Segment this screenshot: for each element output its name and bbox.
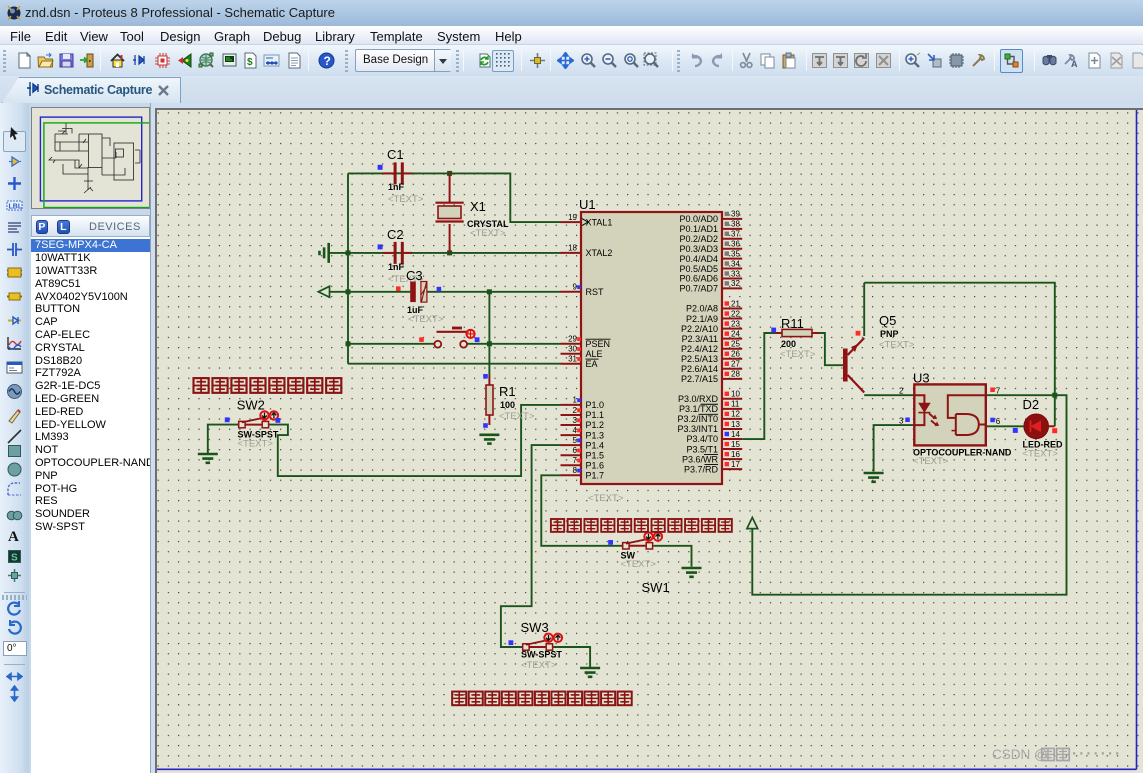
wire U3 pin6 to D2 xyxy=(987,425,1025,427)
svg-text:P2.4/A12: P2.4/A12 xyxy=(681,344,718,354)
annotation 按键模拟光线强弱 xyxy=(194,378,342,393)
svg-text:SW3: SW3 xyxy=(521,620,549,635)
svg-text:<TEXT>: <TEXT> xyxy=(470,228,506,239)
node RST-R1 xyxy=(487,289,492,294)
svg-text:<TEXT>: <TEXT> xyxy=(408,314,444,325)
svg-text:<TEXT>: <TEXT> xyxy=(388,194,424,205)
svg-text:ALE: ALE xyxy=(586,349,603,359)
svg-text:<TEXT>: <TEXT> xyxy=(913,456,949,467)
svg-text:21: 21 xyxy=(731,299,740,308)
capacitor C2 xyxy=(378,227,424,285)
svg-text:SW1: SW1 xyxy=(642,580,670,595)
svg-text:33: 33 xyxy=(731,269,740,278)
svg-text:PSEN: PSEN xyxy=(586,339,611,349)
node RST rail xyxy=(346,289,351,294)
svg-text:18: 18 xyxy=(568,244,577,253)
svg-text:32: 32 xyxy=(731,279,740,288)
node BTN rail xyxy=(346,341,351,346)
terminal arrow RST left xyxy=(318,286,329,297)
svg-text:SW-SPST: SW-SPST xyxy=(521,650,562,660)
svg-text:P1.5: P1.5 xyxy=(586,450,605,460)
wire SW1 right to gnd xyxy=(653,546,691,567)
switch SW2 xyxy=(238,411,279,428)
svg-text:29: 29 xyxy=(568,335,577,344)
svg-text:RST: RST xyxy=(586,287,605,297)
svg-text:8: 8 xyxy=(573,466,578,475)
transistor Q5 PNP xyxy=(843,313,915,393)
svg-text:?: ? xyxy=(324,54,331,68)
crystal X1 xyxy=(436,173,510,253)
svg-text:6: 6 xyxy=(573,446,578,455)
ground R1 xyxy=(479,435,499,444)
svg-text:CSDN @: CSDN @ xyxy=(992,747,1048,762)
wire C1 top rail xyxy=(348,173,561,222)
wire EA line xyxy=(348,363,561,365)
terminal arrow up (loop) xyxy=(747,518,758,529)
svg-text:P3.7/RD: P3.7/RD xyxy=(684,464,719,474)
capacitor C3 electrolytic xyxy=(396,268,444,325)
ground C2 (left-facing) xyxy=(320,243,329,263)
svg-text:<TEXT>: <TEXT> xyxy=(621,559,657,570)
svg-text:<TEXT>: <TEXT> xyxy=(780,349,816,360)
svg-text:XTAL1: XTAL1 xyxy=(586,217,613,227)
svg-text:P3.2/INT0: P3.2/INT0 xyxy=(677,414,718,424)
wire gnd to XTAL2 xyxy=(330,252,561,254)
wire P3.4 to R11 xyxy=(742,333,776,439)
svg-text:P2.3/A11: P2.3/A11 xyxy=(682,334,718,344)
svg-text:200: 200 xyxy=(781,339,796,349)
svg-text:$: $ xyxy=(247,57,253,68)
svg-text:7: 7 xyxy=(573,456,578,465)
wire R11 to Q5 base xyxy=(818,333,843,365)
svg-text:<TEXT>: <TEXT> xyxy=(1023,449,1059,460)
svg-text:LBL: LBL xyxy=(9,204,23,211)
svg-text:P0.5/AD5: P0.5/AD5 xyxy=(679,264,718,274)
svg-text:12: 12 xyxy=(731,410,740,419)
svg-text:P2.6/A14: P2.6/A14 xyxy=(681,364,718,374)
svg-text:30: 30 xyxy=(568,345,577,354)
svg-text:100: 100 xyxy=(500,400,515,410)
op U3 OPTOCOUPLER-NAND xyxy=(899,371,1012,468)
wire U3 pin3 to gnd xyxy=(874,425,915,471)
wire button line to PSEN xyxy=(348,343,435,345)
node BTN-PSEN xyxy=(487,341,492,346)
wire P1.0 to SW2 xyxy=(269,405,560,476)
wire P1.7 to SW1 xyxy=(541,475,622,546)
svg-text:38: 38 xyxy=(731,220,740,229)
svg-text:7: 7 xyxy=(996,387,1001,396)
svg-text:3: 3 xyxy=(899,417,904,426)
svg-text:14: 14 xyxy=(731,430,740,439)
svg-text:6: 6 xyxy=(996,417,1001,426)
ground SW1 xyxy=(682,568,702,577)
wire U3 pin7 to junction xyxy=(752,395,1066,595)
svg-text:P2.0/A8: P2.0/A8 xyxy=(686,304,718,314)
svg-text:·······: ······· xyxy=(1072,746,1122,763)
svg-text:P1.6: P1.6 xyxy=(586,460,605,470)
svg-text:P0.1/AD1: P0.1/AD1 xyxy=(679,224,718,234)
svg-text:1nF: 1nF xyxy=(388,182,405,192)
svg-text:P0.7/AD7: P0.7/AD7 xyxy=(679,284,718,294)
svg-text:<TEXT>: <TEXT> xyxy=(588,493,624,504)
node X1-top xyxy=(447,171,452,176)
svg-text:X1: X1 xyxy=(470,199,486,214)
svg-text:35: 35 xyxy=(731,249,740,258)
svg-text:16: 16 xyxy=(731,450,740,459)
annotation 用按键代替人体感应模块 xyxy=(551,519,732,532)
svg-text:XTAL2: XTAL2 xyxy=(586,248,613,258)
svg-text:24: 24 xyxy=(731,329,740,338)
svg-text:C2: C2 xyxy=(387,227,404,242)
svg-text:D2: D2 xyxy=(1023,397,1040,412)
svg-text:P3.4/T0: P3.4/T0 xyxy=(686,434,718,444)
svg-text:2: 2 xyxy=(899,387,904,396)
switch SW3 xyxy=(522,634,563,651)
svg-text:22: 22 xyxy=(731,309,740,318)
svg-text:P2.5/A13: P2.5/A13 xyxy=(681,354,718,364)
op U1 AT89C51 body xyxy=(561,197,743,504)
svg-text:S: S xyxy=(11,553,18,564)
svg-text:P3.3/INT1: P3.3/INT1 xyxy=(677,424,718,434)
svg-text:36: 36 xyxy=(731,239,740,248)
svg-text:P1.1: P1.1 xyxy=(586,410,605,420)
svg-text:P0.2/AD2: P0.2/AD2 xyxy=(679,234,718,244)
svg-text:27: 27 xyxy=(731,360,740,369)
svg-text:C3: C3 xyxy=(406,268,423,283)
wire top rail xyxy=(864,283,1055,427)
svg-text:R1: R1 xyxy=(499,384,516,399)
svg-text:P2.2/A10: P2.2/A10 xyxy=(681,324,718,334)
svg-text:C1: C1 xyxy=(387,147,404,162)
svg-text:P0.0/AD0: P0.0/AD0 xyxy=(679,214,718,224)
wire SW2 left to gnd xyxy=(208,425,239,454)
svg-text:EA: EA xyxy=(586,359,598,369)
svg-text:A: A xyxy=(8,529,19,544)
svg-text:P1.2: P1.2 xyxy=(586,420,605,430)
svg-text:P2.1/A9: P2.1/A9 xyxy=(686,314,718,324)
wire Q5 collector to U3 pin2 xyxy=(864,394,914,396)
svg-text:P1.4: P1.4 xyxy=(586,440,605,450)
svg-text:U1: U1 xyxy=(579,197,596,212)
svg-text:P3.5/T1: P3.5/T1 xyxy=(686,444,718,454)
svg-text:U3: U3 xyxy=(913,371,930,386)
svg-text:P2.7/A15: P2.7/A15 xyxy=(681,374,718,384)
svg-text:1: 1 xyxy=(573,396,578,405)
svg-text:<TEXT>: <TEXT> xyxy=(499,411,535,422)
switch SW1 xyxy=(622,532,663,549)
svg-text:P3.1/TXD: P3.1/TXD xyxy=(679,404,719,414)
svg-text:9: 9 xyxy=(573,283,578,292)
wire Q5 emitter to top rail xyxy=(863,283,865,336)
svg-text:2: 2 xyxy=(573,406,578,415)
LED D2 xyxy=(1013,397,1063,460)
wire left rail xyxy=(347,173,349,363)
svg-text:P0.6/AD6: P0.6/AD6 xyxy=(679,274,718,284)
node GND-C2 rail xyxy=(346,250,351,255)
svg-text:13: 13 xyxy=(731,420,740,429)
svg-text:3: 3 xyxy=(573,416,578,425)
wire RST line xyxy=(330,291,412,293)
annotation 用按键代替声音检测模块 xyxy=(452,692,632,706)
svg-text:28: 28 xyxy=(731,370,740,379)
svg-text:P1.0: P1.0 xyxy=(586,400,605,410)
svg-text:17: 17 xyxy=(731,460,740,469)
svg-text:Q5: Q5 xyxy=(879,313,896,328)
capacitor C1 xyxy=(378,147,424,205)
ground SW3 xyxy=(580,668,600,677)
svg-text:4: 4 xyxy=(573,426,578,435)
svg-text:P0.4/AD4: P0.4/AD4 xyxy=(679,254,718,264)
svg-text:31: 31 xyxy=(568,355,577,364)
svg-text:39: 39 xyxy=(731,210,740,219)
svg-text:A: A xyxy=(1071,59,1078,69)
svg-text:26: 26 xyxy=(731,350,740,359)
svg-text:34: 34 xyxy=(731,259,740,268)
wire SW3 right to gnd xyxy=(553,647,590,668)
resistor R1 xyxy=(483,374,535,428)
svg-text:37: 37 xyxy=(731,230,740,239)
svg-text:<TEXT>: <TEXT> xyxy=(521,660,557,671)
svg-text:10: 10 xyxy=(731,390,740,399)
resistor R11 xyxy=(771,316,819,360)
wire RST to R1 vertical xyxy=(488,292,490,376)
svg-text:19: 19 xyxy=(568,213,577,222)
svg-text:P3.0/RXD: P3.0/RXD xyxy=(678,394,719,404)
node D2-P7 xyxy=(1052,393,1057,398)
svg-text:PNP: PNP xyxy=(880,329,899,339)
svg-text:SW2: SW2 xyxy=(237,398,265,413)
svg-text:23: 23 xyxy=(731,319,740,328)
svg-text:11: 11 xyxy=(731,400,740,409)
svg-text:15: 15 xyxy=(731,440,740,449)
svg-text:P1.7: P1.7 xyxy=(586,471,605,481)
ground U3 pin3 xyxy=(864,473,884,482)
wire P1.4 to SW3 xyxy=(501,445,561,647)
svg-text:1nF: 1nF xyxy=(388,262,405,272)
svg-text:R11: R11 xyxy=(781,316,804,331)
svg-text:25: 25 xyxy=(731,340,740,349)
svg-text:<TEXT>: <TEXT> xyxy=(238,439,274,450)
svg-text:P0.3/AD3: P0.3/AD3 xyxy=(679,244,718,254)
button (push switch) xyxy=(419,328,479,348)
svg-text:<TEXT>: <TEXT> xyxy=(879,340,915,351)
svg-text:P1.3: P1.3 xyxy=(586,430,605,440)
svg-text:5: 5 xyxy=(573,436,578,445)
ground SW2 xyxy=(198,454,218,463)
node X1-bottom xyxy=(447,250,452,255)
svg-text:P3.6/WR: P3.6/WR xyxy=(682,454,719,464)
